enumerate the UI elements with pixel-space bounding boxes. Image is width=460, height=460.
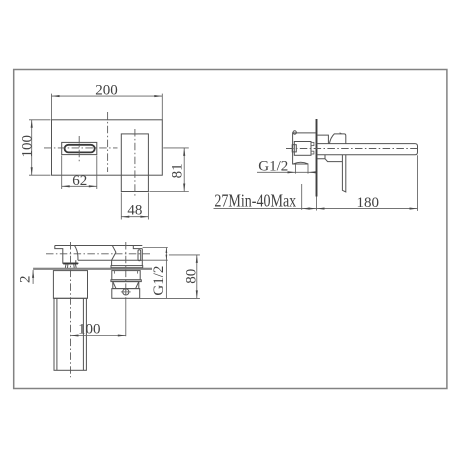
- svg-text:62: 62: [72, 173, 87, 189]
- svg-text:27Min-40Max: 27Min-40Max: [214, 192, 296, 211]
- svg-text:48: 48: [127, 203, 142, 219]
- left inlet port: [292, 145, 296, 152]
- svg-text:200: 200: [95, 82, 118, 98]
- svg-text:81: 81: [169, 163, 185, 178]
- valve lip: [111, 280, 141, 282]
- svg-text:2: 2: [18, 276, 34, 284]
- handle grip: [342, 155, 345, 192]
- spout axis centerline vertical: [70, 242, 72, 377]
- body fold chevron: [112, 246, 116, 266]
- spout outlet rect: [62, 142, 97, 154]
- supply pipe threaded: [54, 298, 86, 370]
- dimension 80: [140, 255, 200, 299]
- wall plate strip: [33, 268, 152, 270]
- handle block centerline: [132, 129, 137, 196]
- escutcheon block above bar: [317, 135, 328, 144]
- handle lever cross-section: [138, 250, 141, 261]
- svg-text:G1/2: G1/2: [151, 266, 167, 296]
- svg-text:100: 100: [78, 322, 101, 338]
- spout tip tab: [55, 246, 79, 264]
- body underside edge: [78, 259, 142, 261]
- dimension 27Min-40Max: [214, 184, 317, 211]
- dimension 2 plate thickness: [18, 270, 35, 284]
- border frame: [14, 70, 447, 389]
- svg-text:100: 100: [19, 135, 35, 158]
- dimension G1/2 top view: [142, 248, 168, 299]
- valve body section: [112, 271, 140, 280]
- plate vertical centerline: [107, 112, 109, 172]
- spout centerline horizontal: [44, 147, 118, 149]
- mounting flange: [111, 266, 143, 268]
- valve axis centerline: [125, 242, 127, 336]
- horizontal axis centerline: [286, 148, 420, 150]
- dimension G1/2 side view: [257, 158, 316, 174]
- dimension 180: [317, 155, 418, 211]
- housing right edge: [141, 249, 143, 266]
- dimension 81: [149, 148, 188, 192]
- svg-text:80: 80: [184, 269, 200, 284]
- handle block: [121, 134, 148, 192]
- spout outlet slot: [65, 145, 95, 153]
- spout bar: [317, 144, 418, 155]
- bottom flange arc: [293, 162, 308, 164]
- dimension 48: [121, 193, 148, 220]
- body axis centerline horizontal: [46, 253, 150, 255]
- cartridge inner rect: [294, 142, 311, 156]
- dimension 62: [62, 156, 97, 190]
- body top screw circle: [293, 131, 296, 134]
- aerator legs: [65, 264, 76, 268]
- aerator slot: [63, 263, 78, 265]
- wall line: [316, 119, 318, 211]
- escutcheon block below bar: [317, 155, 342, 162]
- supply pipe upper: [53, 271, 87, 299]
- dimension 100 left: [19, 120, 50, 175]
- spout side curve: [75, 246, 78, 264]
- concealed body: [293, 133, 316, 164]
- wall connector ports: [311, 142, 314, 154]
- valve screw: [121, 289, 131, 295]
- handle cap: [329, 133, 345, 144]
- dimension 100 offset: [71, 322, 126, 338]
- spout centerline vertical: [78, 136, 80, 162]
- handle cap top view: [133, 246, 142, 249]
- svg-text:180: 180: [357, 195, 380, 211]
- body top edge: [55, 245, 143, 247]
- svg-text:G1/2: G1/2: [258, 158, 288, 174]
- wall plate: [52, 120, 163, 175]
- dimension 200: [52, 82, 163, 119]
- valve lower section: [112, 289, 140, 299]
- valve thread nut: [113, 282, 139, 289]
